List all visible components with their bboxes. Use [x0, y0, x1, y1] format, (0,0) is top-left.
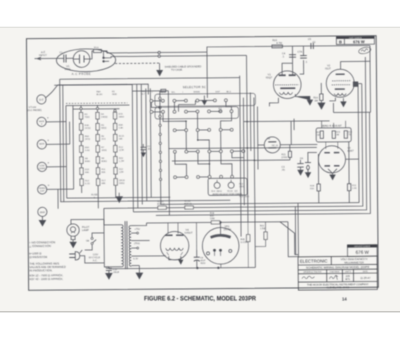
wire V2 area to right verticals — [333, 103, 370, 113]
svg-text:6.3V: 6.3V — [133, 258, 138, 260]
voltage regulator tube VR1 — [202, 227, 239, 264]
row 5 — [174, 176, 177, 179]
rectifier tube V4 6X5GT — [160, 231, 189, 260]
svg-text:+: + — [47, 138, 49, 142]
tube V1 6SQ7 — [273, 71, 301, 99]
tube V2 6SJ7 — [326, 69, 354, 97]
V1 cathode grounds — [295, 94, 312, 105]
svg-text:A.C.: A.C. — [93, 259, 98, 262]
svg-text:Ω=RESISTOR: Ω=RESISTOR — [29, 255, 47, 259]
resistor bank left rail wires — [63, 85, 74, 202]
svg-text:SCHEMATIC WIRING DIAGRAM MODEL: SCHEMATIC WIRING DIAGRAM MODEL 203PR — [306, 265, 369, 270]
svg-text:6SQ7: 6SQ7 — [266, 76, 273, 79]
svg-text:R7A: R7A — [118, 113, 123, 116]
terminal MA/5 + — [37, 117, 46, 126]
page top edge — [0, 26, 400, 28]
svg-text:B71: B71 — [346, 278, 351, 281]
svg-text:20KΩ: 20KΩ — [239, 185, 245, 188]
svg-text:MILLIAMMETER: MILLIAMMETER — [344, 260, 364, 264]
svg-text:1.8K: 1.8K — [119, 127, 124, 129]
svg-text:9400: 9400 — [85, 161, 91, 163]
svg-text:45K: 45K — [85, 172, 89, 174]
resistor bank value labels — [84, 113, 125, 186]
svg-text:R34 12: R34 12 — [157, 204, 165, 206]
title block main box — [298, 256, 377, 290]
column 1 resistors R3A..R9A — [80, 106, 83, 193]
R37 resistor on rail — [185, 206, 194, 209]
svg-text:920Ω: 920Ω — [119, 182, 125, 185]
svg-text:R5A: R5A — [85, 135, 90, 138]
svg-text:CAP: CAP — [40, 190, 45, 193]
svg-text:5B: 5B — [86, 239, 89, 242]
row 4 — [173, 150, 176, 153]
V1 plate lead + coupling cap C4 — [291, 46, 293, 63]
svg-text:CLEVELAND, OHIO: CLEVELAND, OHIO — [326, 286, 349, 289]
svg-text:900Ω: 900Ω — [101, 160, 107, 163]
V2 pin 6 to right bus — [353, 82, 358, 87]
svg-text:SHIELDED CABLE GROUNDED: SHIELDED CABLE GROUNDED — [165, 65, 202, 68]
svg-text:6SN7: 6SN7 — [347, 150, 354, 153]
svg-text:91K: 91K — [310, 188, 314, 190]
ground under secondary — [136, 266, 143, 279]
svg-text:270Ω: 270Ω — [281, 156, 287, 159]
svg-text:41.2Ω: 41.2Ω — [157, 200, 163, 203]
wire into meter box area — [60, 200, 230, 201]
wire: probe junction down — [206, 52, 208, 98]
svg-text:C7A: C7A — [297, 51, 302, 54]
svg-text:R37 42 - 1500 Ω APPROX.: R37 42 - 1500 Ω APPROX. — [29, 277, 63, 281]
svg-text:CHECKED: CHECKED — [330, 271, 340, 273]
switch 5B — [91, 242, 93, 244]
terminal GND — [38, 207, 47, 216]
svg-text:TO CASE.: TO CASE. — [171, 69, 183, 72]
capacitor C5 .02 on top bus — [308, 38, 316, 49]
V3 cathode ground — [328, 169, 337, 180]
svg-text:.05UF: .05UF — [113, 272, 120, 274]
terminal D.C — [37, 95, 46, 104]
svg-text:1M: 1M — [317, 135, 320, 137]
shielded cable dashed shield — [115, 62, 159, 64]
svg-text:△ CONNECTION: △ CONNECTION — [29, 244, 51, 248]
notes text block (left bottom) — [29, 240, 66, 281]
junction dots — [159, 106, 211, 165]
svg-text:6X5GT: 6X5GT — [185, 232, 193, 235]
svg-text:12M: 12M — [119, 172, 123, 174]
svg-text:FIGURE 6.2 - SCHEMATIC, MODEL: FIGURE 6.2 - SCHEMATIC, MODEL 203PR — [144, 296, 256, 303]
pilot lamp — [67, 224, 80, 237]
probe resistor R1A and output wiring — [93, 49, 101, 52]
svg-text:(D.C PROBE): (D.C PROBE) — [27, 110, 41, 112]
svg-text:(75V): (75V) — [134, 243, 140, 245]
secondary winding — [129, 226, 131, 267]
svg-text:B: B — [339, 39, 342, 44]
svg-text:DR33: DR33 — [119, 180, 125, 182]
svg-text:D.C: D.C — [39, 98, 44, 102]
electrolytic C9 — [196, 250, 198, 268]
svg-text:INPUT: INPUT — [39, 53, 47, 57]
svg-text:R41: R41 — [260, 225, 265, 227]
svg-text:6SJ7: 6SJ7 — [325, 67, 331, 70]
V4 heater/ground — [169, 256, 181, 260]
svg-text:R11A: R11A — [119, 135, 125, 138]
R34 resistor on rail — [158, 206, 167, 209]
row 1 — [150, 100, 153, 103]
svg-text:4.7M: 4.7M — [276, 42, 282, 45]
capacitor C10 at transformer bottom — [106, 267, 113, 279]
svg-text:C10: C10 — [113, 269, 118, 271]
capacitor C1 in probe — [63, 54, 65, 62]
top bus wire — [207, 46, 370, 53]
svg-text:80K: 80K — [102, 183, 106, 185]
svg-text:6.1Ω: 6.1Ω — [85, 182, 90, 185]
column 3 resistors R5A..R33 — [114, 109, 117, 198]
svg-text:UNITS: UNITS — [345, 271, 352, 273]
svg-text:14: 14 — [342, 297, 347, 302]
B+ rail y=222.5 — [146, 222, 287, 223]
svg-text:-: - — [41, 145, 42, 149]
svg-text:96.5Ω: 96.5Ω — [96, 93, 102, 96]
A.C input probe tip — [35, 57, 58, 60]
resistor bank columns — [79, 106, 83, 194]
inspection stamp oval — [358, 46, 372, 55]
svg-text:R8A: R8A — [96, 90, 101, 93]
neon lamp NE-16 — [264, 137, 280, 153]
svg-text:V.T.V.M: V.T.V.M — [28, 107, 36, 109]
svg-text:R37 42: R37 42 — [184, 204, 192, 206]
svg-text:676 W: 676 W — [353, 39, 365, 44]
bottom return rail — [109, 268, 255, 269]
row 3 — [173, 129, 176, 132]
R38 power resistor — [211, 221, 220, 224]
svg-text:DRAWING NUMBER: DRAWING NUMBER — [354, 245, 371, 248]
svg-text:+: + — [47, 161, 49, 165]
selector wiper arrow — [202, 95, 207, 104]
core — [124, 221, 126, 269]
selector wafer boxes — [155, 93, 256, 106]
terminal OHMS CAP — [38, 185, 47, 194]
title block: drawing-number cell — [347, 245, 377, 257]
row 2 — [150, 111, 153, 114]
selector position labels — [151, 90, 231, 94]
svg-text:R4A: R4A — [85, 124, 90, 127]
svg-text:10W: 10W — [210, 218, 216, 220]
V3 side rails + plate resistors — [317, 154, 319, 184]
svg-text:2.4K: 2.4K — [352, 188, 357, 190]
signatures — [302, 275, 338, 280]
tube V3 6SN7 — [318, 146, 345, 173]
svg-text:DRAWN & TRACED: DRAWN & TRACED — [303, 271, 322, 274]
junction dots on rails — [246, 121, 255, 161]
svg-text:ZERO ADJUST FOR OHMS: ZERO ADJUST FOR OHMS — [212, 193, 242, 196]
svg-text:R6A: R6A — [85, 146, 90, 149]
polarity ticks — [47, 116, 50, 188]
svg-text:1M: 1M — [314, 99, 318, 102]
svg-text:ZERO Φ ADJUST: ZERO Φ ADJUST — [322, 125, 343, 128]
svg-text:11-26-47: 11-26-47 — [360, 276, 371, 280]
svg-text:DATE: DATE — [363, 270, 369, 273]
svg-text:247Ω: 247Ω — [85, 138, 91, 141]
svg-text:OHMS: OHMS — [39, 168, 46, 170]
svg-text:LAMP: LAMP — [82, 229, 89, 232]
diagonal wire to title block — [280, 222, 298, 255]
long horizontal rails center — [169, 147, 317, 148]
zero adjust for ohms pot box — [208, 178, 247, 195]
central vertical bus wires — [240, 55, 259, 267]
svg-text:24.5Ω: 24.5Ω — [85, 127, 91, 130]
left long bus wires — [60, 78, 241, 202]
svg-text:+75V: +75V — [135, 229, 141, 231]
svg-text:CAP: CAP — [215, 90, 220, 93]
svg-text:9006: 9006 — [65, 67, 71, 71]
svg-text:+: + — [48, 183, 50, 187]
V2 plate lead from bus — [341, 61, 371, 69]
svg-text:MLS: MLS — [226, 91, 231, 93]
resistor R16 1M with ground — [320, 83, 322, 94]
svg-text:A.C PROBE: A.C PROBE — [72, 72, 91, 76]
svg-text:123K: 123K — [119, 150, 125, 152]
svg-text:ELECTRONIC: ELECTRONIC — [300, 258, 328, 263]
wire plug to switch 5B — [80, 256, 105, 264]
svg-text:R45: R45 — [241, 239, 246, 241]
border frame — [26, 36, 378, 291]
svg-text:R1A: R1A — [94, 46, 99, 49]
svg-text:OHMS: OHMS — [39, 188, 46, 190]
svg-text:7500: 7500 — [85, 117, 91, 119]
svg-text:C-22M: C-22M — [241, 242, 248, 244]
svg-text:2.4Ω: 2.4Ω — [85, 149, 90, 152]
V4 pins to B+ rail — [168, 223, 178, 234]
secondary taps — [131, 223, 161, 266]
svg-text:18K: 18K — [119, 138, 123, 140]
transformer T1 — [103, 208, 105, 224]
svg-text:3M: 3M — [336, 134, 339, 136]
A.C. probe oval — [56, 49, 115, 72]
V2 cathode grounds — [341, 98, 346, 106]
pilot lamp leads + ground — [71, 236, 75, 240]
ground symbol under GND — [39, 216, 45, 225]
svg-text:100Ω: 100Ω — [101, 149, 107, 152]
svg-text:41.2Ω: 41.2Ω — [184, 200, 190, 203]
probe tube V5 9006 — [73, 51, 90, 68]
svg-text:180Ω: 180Ω — [119, 115, 125, 118]
wires from terminals to bank — [46, 122, 73, 190]
svg-text:R9A: R9A — [119, 124, 124, 127]
svg-text:7500: 7500 — [112, 94, 118, 96]
A.C. plug — [69, 254, 75, 258]
svg-text:1.5M: 1.5M — [260, 228, 265, 230]
svg-text:150/30: 150/30 — [224, 228, 232, 231]
svg-text:OHMS: OHMS — [193, 92, 200, 94]
resistor R15 4.7M on bus — [272, 45, 283, 48]
svg-text:NE-16: NE-16 — [272, 145, 279, 147]
drawing number box top-right — [336, 36, 374, 39]
svg-text:IN PRODUCTION.: IN PRODUCTION. — [29, 268, 52, 272]
terminal MA/5 - — [37, 140, 46, 149]
svg-text:100Ω: 100Ω — [244, 195, 250, 198]
ground for shield — [157, 63, 163, 75]
right vertical bus with corners to long rails — [160, 203, 359, 205]
page bottom edge — [0, 311, 400, 313]
selector wiring mesh — [153, 99, 214, 102]
primary winding — [104, 225, 121, 267]
svg-text:450V: 450V — [200, 263, 206, 265]
probe cable lines — [115, 53, 158, 57]
svg-text:SELECTOR 5C: SELECTOR 5C — [183, 85, 206, 89]
svg-text:676 W: 676 W — [356, 250, 370, 255]
column 2 resistors R4A..R12 — [96, 105, 99, 197]
capacitor C7A .1 — [302, 46, 304, 69]
C8 cap + ground left of V3 — [308, 152, 317, 162]
terminal LOW OHMS — [37, 162, 46, 171]
svg-text:2400Ω: 2400Ω — [101, 116, 108, 119]
selector 5C contact rows — [150, 99, 245, 179]
svg-text:90K: 90K — [102, 172, 106, 174]
svg-text:1M: 1M — [218, 110, 221, 113]
svg-text:GND: GND — [40, 211, 46, 214]
svg-text:1.2M: 1.2M — [119, 161, 124, 163]
svg-text:+: + — [47, 116, 49, 120]
svg-text:500Ω: 500Ω — [101, 127, 107, 130]
vertical wire bundle — [132, 84, 169, 215]
